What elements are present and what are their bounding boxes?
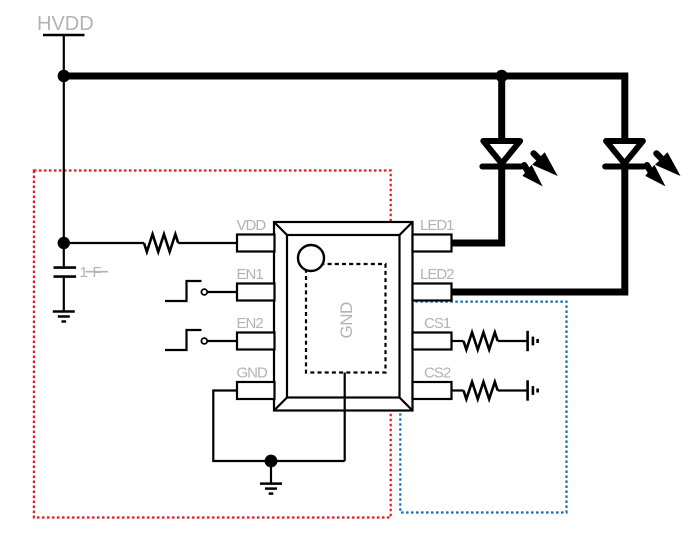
svg-text:CS2: CS2 bbox=[424, 365, 451, 382]
pin VDD (1) bbox=[237, 235, 275, 252]
blue dashed boundary box (sense section) bbox=[400, 302, 566, 513]
node: junction HVDD rail bbox=[58, 70, 70, 82]
pin LED1 (8) bbox=[413, 235, 452, 252]
ground (below capacitor C1) bbox=[53, 312, 75, 322]
pin GND (4) bbox=[237, 382, 275, 399]
wire: resistor R2 to ground bbox=[498, 340, 527, 342]
wire: resistor R3 to ground bbox=[498, 389, 527, 391]
svg-text:F: F bbox=[93, 264, 102, 281]
svg-text:EN2: EN2 bbox=[237, 315, 264, 332]
wire: thick LED D1 cathode to LED1 pin bbox=[452, 167, 502, 244]
red dashed boundary box (driver section) bbox=[34, 171, 391, 518]
IC U1 body (SOIC-8 3D outline) bbox=[274, 222, 413, 411]
power flag HVDD bbox=[37, 13, 94, 35]
capacitor C1 bbox=[54, 243, 77, 311]
pin CS1 (6) bbox=[413, 333, 452, 350]
LED D2 bbox=[605, 141, 680, 186]
pin 1 indicator circle bbox=[298, 245, 324, 271]
wire: resistor R1 to pin VDD bbox=[178, 242, 237, 244]
pin LED2 (7) bbox=[413, 284, 452, 301]
wire: thick LED D2 cathode to LED2 pin bbox=[452, 167, 625, 293]
svg-text:LED2: LED2 bbox=[420, 266, 454, 283]
switch S2 (EN2 logic input edge) bbox=[165, 330, 237, 350]
pin EN1 (2) bbox=[237, 284, 275, 301]
node: junction LED D1 branch bbox=[496, 70, 508, 82]
wire: node to resistor R1 bbox=[64, 242, 144, 244]
pin CS2 (5) bbox=[413, 382, 452, 399]
capacitor C1 value label 1uF bbox=[80, 264, 109, 281]
ground (main, below GND node) bbox=[260, 461, 282, 494]
switch S1 (EN1 logic input edge) bbox=[165, 281, 237, 301]
wire: GND pin loop to ground bbox=[213, 391, 344, 462]
svg-text:GND: GND bbox=[337, 302, 356, 339]
svg-text:LED1: LED1 bbox=[420, 217, 454, 234]
resistor R1 (VDD series) bbox=[144, 234, 178, 252]
ground (CS1, rotated) bbox=[528, 331, 538, 351]
exposed pad GND (dashed) bbox=[306, 264, 386, 373]
svg-text:EN1: EN1 bbox=[237, 266, 264, 283]
pin EN2 (3) bbox=[237, 333, 275, 350]
node: junction ground rail bbox=[265, 455, 278, 468]
resistor R3 (CS2) bbox=[464, 382, 498, 399]
wire: CS1 pin to resistor R2 bbox=[452, 340, 464, 342]
node: junction VDD / capacitor bbox=[58, 237, 70, 249]
svg-text:CS1: CS1 bbox=[424, 315, 451, 332]
LED D1 bbox=[482, 141, 557, 186]
wire: HVDD rail vertical down to VDD node bbox=[63, 35, 65, 243]
wire: thick branch down to LED D1 bbox=[498, 76, 505, 141]
wire: CS2 pin to resistor R3 bbox=[452, 389, 464, 391]
wire: exposed pad to ground rail bbox=[344, 373, 346, 462]
ground (CS2, rotated) bbox=[528, 380, 538, 400]
svg-text:HVDD: HVDD bbox=[37, 13, 94, 35]
wire: thick HVDD bus across top and down to LED D2 bbox=[64, 76, 625, 141]
resistor R2 (CS1) bbox=[464, 332, 498, 349]
svg-text:VDD: VDD bbox=[237, 217, 267, 234]
svg-text:GND: GND bbox=[237, 365, 269, 382]
